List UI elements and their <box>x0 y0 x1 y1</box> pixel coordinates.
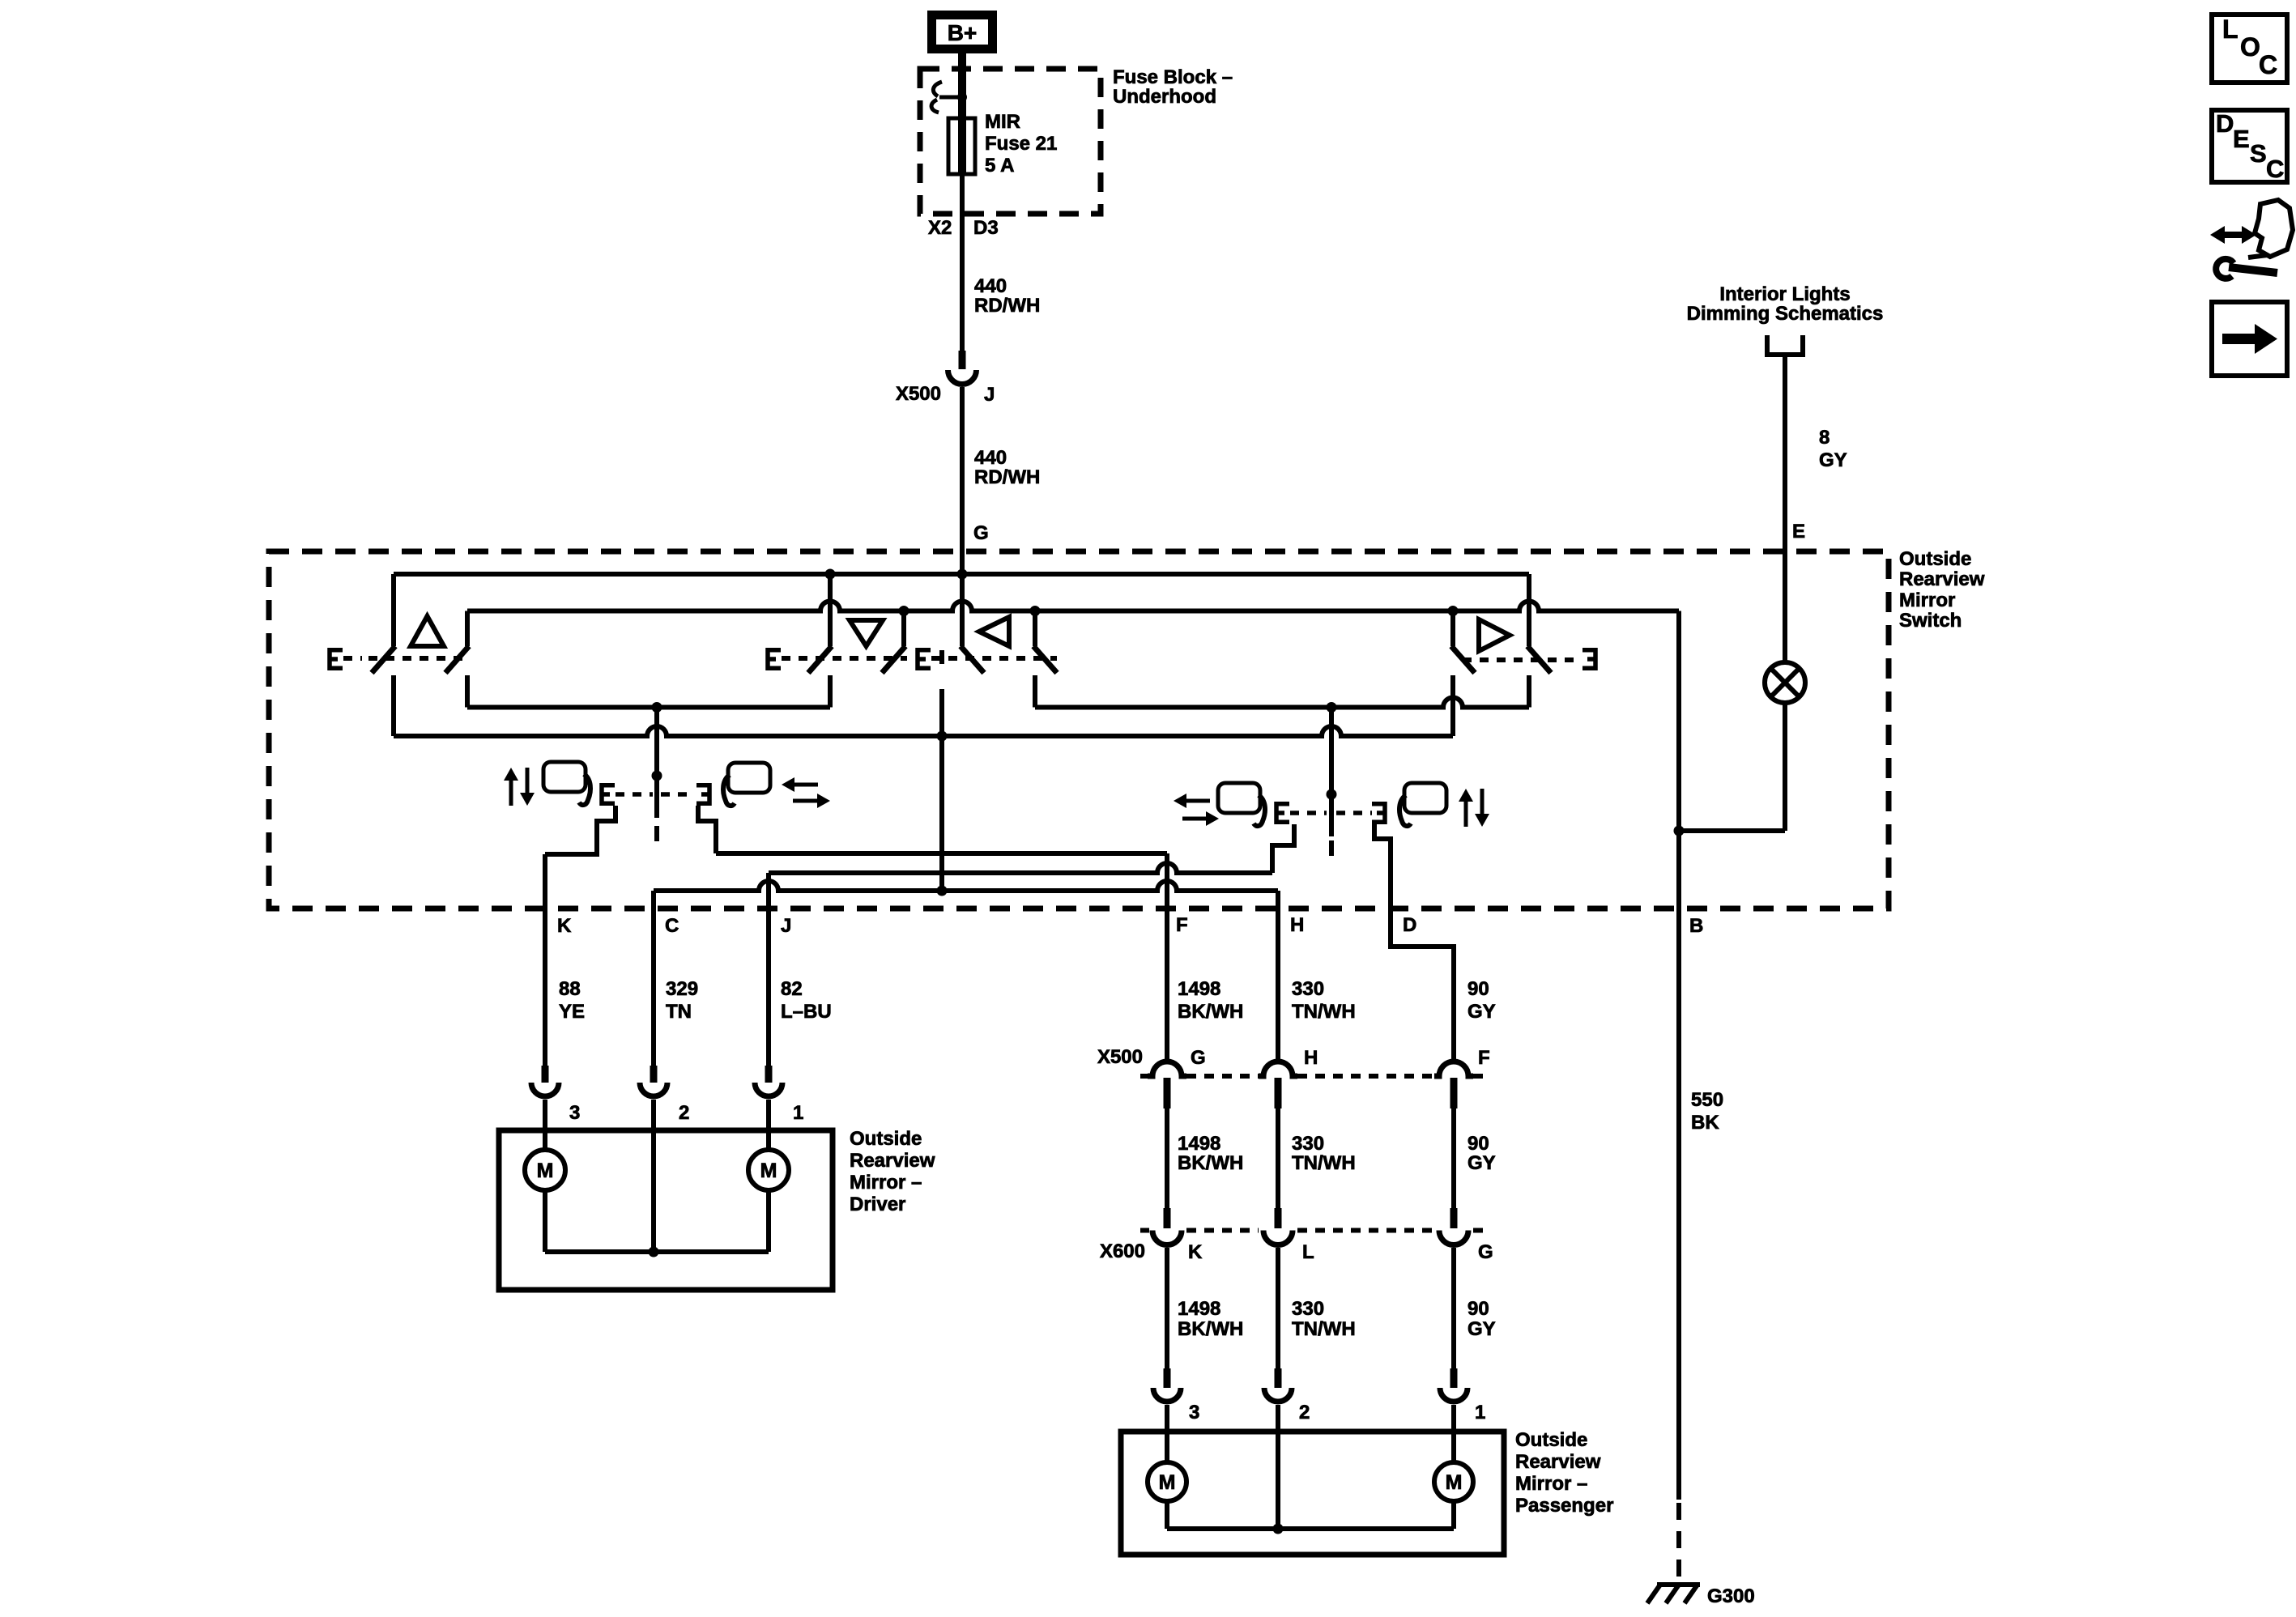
svg-text:RD/WH: RD/WH <box>974 466 1040 488</box>
svg-text:GY: GY <box>1819 449 1847 471</box>
svg-text:MIR: MIR <box>985 111 1020 133</box>
svg-text:RD/WH: RD/WH <box>974 295 1040 317</box>
svg-text:1: 1 <box>1475 1402 1485 1423</box>
svg-text:GY: GY <box>1467 1318 1496 1340</box>
svg-text:GY: GY <box>1467 1152 1496 1174</box>
svg-text:K: K <box>557 915 572 937</box>
svg-text:3: 3 <box>569 1102 580 1124</box>
svg-text:G300: G300 <box>1707 1585 1755 1607</box>
svg-text:X500: X500 <box>896 383 941 405</box>
svg-text:Mirror –: Mirror – <box>850 1172 922 1194</box>
svg-text:G: G <box>1191 1047 1206 1069</box>
svg-text:BK/WH: BK/WH <box>1178 1001 1243 1023</box>
svg-text:Mirror: Mirror <box>1899 589 1955 611</box>
svg-text:J: J <box>781 915 791 937</box>
svg-text:Interior Lights: Interior Lights <box>1719 283 1850 305</box>
svg-text:X600: X600 <box>1100 1240 1145 1262</box>
svg-text:M: M <box>760 1160 777 1182</box>
svg-text:329: 329 <box>666 978 698 1000</box>
svg-text:E: E <box>2233 125 2250 153</box>
svg-text:TN/WH: TN/WH <box>1292 1152 1356 1174</box>
svg-text:YE: YE <box>559 1001 585 1023</box>
svg-text:X2: X2 <box>928 217 952 239</box>
svg-text:Dimming Schematics: Dimming Schematics <box>1687 303 1884 325</box>
svg-text:L: L <box>1302 1241 1314 1263</box>
svg-text:3: 3 <box>1189 1402 1199 1423</box>
svg-text:Outside: Outside <box>1899 548 1971 570</box>
svg-text:90: 90 <box>1467 1298 1489 1320</box>
svg-text:D: D <box>1403 914 1416 936</box>
svg-text:BK/WH: BK/WH <box>1178 1318 1243 1340</box>
svg-text:1498: 1498 <box>1178 1133 1220 1155</box>
svg-text:M: M <box>1159 1471 1176 1494</box>
svg-text:Rearview: Rearview <box>1515 1451 1601 1473</box>
svg-text:Underhood: Underhood <box>1113 86 1216 108</box>
svg-text:O: O <box>2240 32 2260 62</box>
svg-text:330: 330 <box>1292 1298 1324 1320</box>
svg-text:440: 440 <box>974 447 1007 469</box>
svg-text:C: C <box>2259 50 2277 79</box>
svg-text:K: K <box>1188 1241 1203 1263</box>
svg-text:Mirror –: Mirror – <box>1515 1473 1587 1495</box>
svg-text:S: S <box>2250 139 2267 168</box>
svg-text:G: G <box>973 522 989 544</box>
svg-text:B+: B+ <box>948 20 978 45</box>
svg-text:440: 440 <box>974 275 1007 297</box>
svg-text:330: 330 <box>1292 978 1324 1000</box>
svg-text:B: B <box>1689 915 1703 937</box>
svg-text:Outside: Outside <box>1515 1429 1587 1451</box>
svg-text:Rearview: Rearview <box>850 1150 935 1172</box>
svg-text:J: J <box>984 384 995 406</box>
svg-text:330: 330 <box>1292 1133 1324 1155</box>
svg-text:D3: D3 <box>973 217 999 239</box>
svg-text:C: C <box>665 915 679 937</box>
svg-text:2: 2 <box>679 1102 689 1124</box>
svg-text:82: 82 <box>781 978 803 1000</box>
svg-text:L–BU: L–BU <box>781 1001 832 1023</box>
svg-text:Driver: Driver <box>850 1194 905 1215</box>
svg-text:550: 550 <box>1691 1089 1723 1111</box>
svg-text:Outside: Outside <box>850 1128 922 1150</box>
svg-text:Fuse 21: Fuse 21 <box>985 133 1057 155</box>
svg-text:TN/WH: TN/WH <box>1292 1001 1356 1023</box>
svg-text:8: 8 <box>1819 427 1830 449</box>
svg-text:GY: GY <box>1467 1001 1496 1023</box>
svg-text:5 A: 5 A <box>985 155 1014 177</box>
svg-text:X500: X500 <box>1097 1046 1143 1068</box>
svg-text:L: L <box>2222 15 2238 44</box>
svg-text:1498: 1498 <box>1178 978 1220 1000</box>
svg-text:C: C <box>2266 155 2284 183</box>
svg-text:88: 88 <box>559 978 581 1000</box>
svg-text:TN/WH: TN/WH <box>1292 1318 1356 1340</box>
svg-text:1: 1 <box>793 1102 803 1124</box>
svg-text:Passenger: Passenger <box>1515 1495 1613 1517</box>
svg-text:1498: 1498 <box>1178 1298 1220 1320</box>
svg-text:2: 2 <box>1299 1402 1310 1423</box>
svg-text:D: D <box>2216 109 2234 138</box>
svg-text:Rearview: Rearview <box>1899 568 1985 590</box>
svg-text:M: M <box>537 1160 554 1182</box>
svg-text:E: E <box>1792 521 1805 543</box>
svg-text:H: H <box>1304 1047 1318 1069</box>
svg-text:G: G <box>1478 1241 1493 1263</box>
svg-text:90: 90 <box>1467 1133 1489 1155</box>
svg-text:Fuse Block –: Fuse Block – <box>1113 66 1233 88</box>
svg-text:F: F <box>1478 1047 1490 1069</box>
svg-text:TN: TN <box>666 1001 692 1023</box>
svg-text:M: M <box>1446 1471 1463 1494</box>
svg-text:BK: BK <box>1691 1112 1719 1134</box>
svg-text:H: H <box>1290 914 1304 936</box>
svg-text:90: 90 <box>1467 978 1489 1000</box>
svg-text:BK/WH: BK/WH <box>1178 1152 1243 1174</box>
svg-text:F: F <box>1176 914 1188 936</box>
svg-text:Switch: Switch <box>1899 610 1962 632</box>
